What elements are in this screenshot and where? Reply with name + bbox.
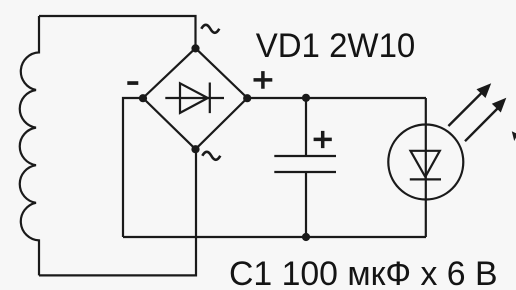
wire: bridge - output down	[123, 98, 143, 237]
label: ~ at bottom AC input	[202, 152, 220, 160]
label: + polarity at bridge right	[254, 71, 273, 89]
LED light arrow 1	[448, 83, 491, 126]
junction: C1 bottom node	[302, 233, 310, 241]
node: bridge ~ top terminal	[191, 44, 199, 52]
label: - polarity at bridge left	[127, 81, 138, 85]
wire: coil bottom to bridge ~ input	[39, 149, 196, 275]
diode symbol inside bridge	[165, 83, 224, 114]
node: bridge - left terminal	[139, 94, 147, 102]
node: bridge + right terminal	[243, 94, 251, 102]
wire: bridge + output to LED branch	[247, 97, 426, 99]
inductor L1 (generator coil)	[20, 16, 39, 275]
svg-text:C1 100 мкФ х 6 В: C1 100 мкФ х 6 В	[229, 255, 498, 290]
wire: negative bottom rail	[123, 236, 426, 238]
label: ~ at top AC input	[201, 25, 219, 33]
junction: C1 top node	[302, 94, 310, 102]
bridge rectifier VD1 diamond outline	[143, 48, 247, 149]
LED light arrow 2	[465, 98, 506, 141]
node: bridge ~ bottom terminal	[191, 145, 199, 153]
wire: coil top to bridge ~ input	[39, 16, 196, 48]
LED diode triangle and cathode bar	[410, 151, 441, 180]
capacitor C1 top lead	[305, 98, 307, 156]
partial arrowhead at right edge	[512, 131, 516, 141]
label: + polarity at capacitor	[314, 131, 332, 148]
LED circle	[388, 125, 463, 200]
svg-text:VD1 2W10: VD1 2W10	[256, 27, 416, 65]
LED HL1 lead and body	[425, 98, 427, 237]
capacitor C1 bottom lead	[305, 172, 307, 237]
capacitor C1 plates	[274, 156, 336, 172]
